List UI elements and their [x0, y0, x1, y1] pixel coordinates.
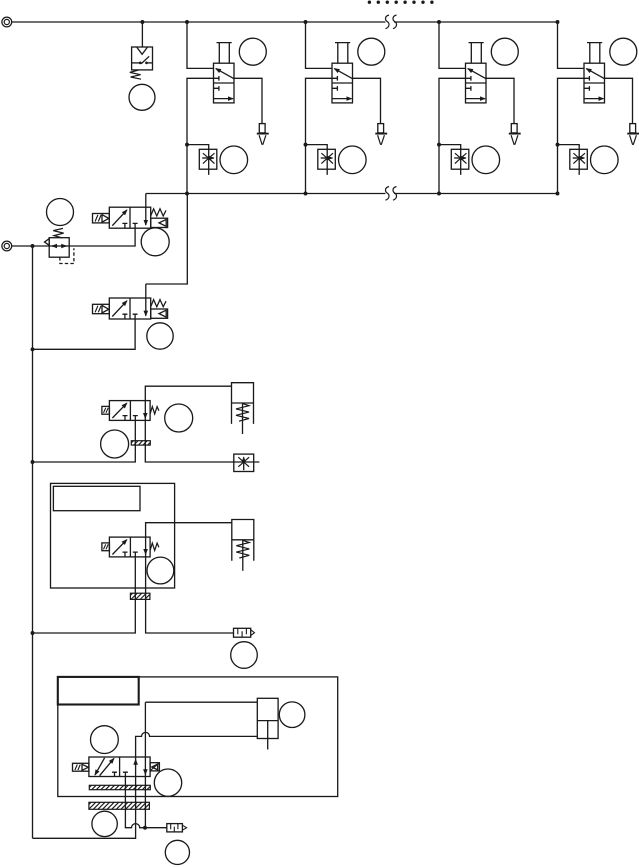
wire: supply drop + feed to valve V14: [558, 22, 585, 68]
wire: branch to flow control FC1: [187, 145, 209, 175]
wire: lower collector bus (right of break): [394, 193, 558, 195]
label circle (below restrictor plates): [92, 811, 117, 836]
label circle (valve V13): [491, 38, 518, 65]
node: bottom bus junction unit 3: [437, 192, 441, 196]
node: top bus junction unit 3: [437, 20, 441, 24]
valve V13 plunger actuator: [469, 43, 484, 64]
wire: valve V12 outlet to nozzle: [353, 78, 381, 123]
wire: supply drop + feed to valve V12: [306, 22, 333, 68]
valve V51 flow path arrow (left cell, down): [95, 758, 105, 775]
node: bottom bus junction unit 2: [304, 192, 308, 196]
air pilot return of V51: [150, 763, 159, 771]
valve V51 flow arrow down (exhaust path): [144, 769, 146, 774]
wire: top supply bus (left of break): [12, 21, 386, 23]
title box (section 5): [58, 677, 139, 705]
valve V31 blocked port T (right cell): [133, 416, 138, 421]
label circle (regulator R1): [47, 199, 74, 226]
valve V14 (3/2 plunger valve) body: [584, 63, 605, 103]
wire: junction to silencer M2: [145, 827, 166, 829]
node: bottom bus junction unit 4: [556, 192, 560, 196]
valve V31 blocked port T (left cell): [123, 416, 128, 421]
pressure switch PS1 inlet notch: [137, 47, 147, 54]
valve V22 blocked port T (right cell): [133, 314, 138, 319]
pressure switch PS1 body: [132, 47, 153, 70]
wire: valve V51 exhaust port to silencer junction: [125, 777, 145, 828]
valve V13 blocked port (top cell): [466, 76, 471, 81]
flow control valve FC3 arrow: [454, 157, 466, 159]
valve V22 blocked port T (left cell): [122, 314, 127, 319]
valve V12 (3/2 plunger valve) body: [332, 63, 353, 103]
nozzle N1 flange: [257, 133, 269, 135]
wire: valve V11 left port to down-bus: [187, 78, 214, 193]
wire: supply line through regulator to valve V21: [12, 228, 135, 246]
valve V41 blocked port T (left cell): [123, 552, 128, 557]
cylinder C31 piston: [232, 402, 254, 404]
enclosure box (section 5): [58, 677, 338, 797]
valve V51 flow path arrow (left cell, up): [100, 758, 114, 775]
valve V51 flow arrow up (supply path): [135, 760, 137, 765]
wire: valve V13 outlet to nozzle: [486, 78, 514, 123]
flow control valve FC4 throttle arcs: [573, 153, 585, 163]
valve V11 bottom cell flow arrow: [214, 98, 234, 100]
wire: valve V13 left port to down-bus: [439, 78, 466, 193]
cylinder C41 body: [232, 520, 254, 561]
valve V51 blocked port T (right cell): [123, 772, 128, 776]
wire: supply from left bus up through valve V51 to cylinder C51 rear port: [33, 732, 258, 838]
wire: drop into valve V22 (flow arrow): [145, 284, 147, 316]
pressure regulator R1 spring: [53, 228, 63, 237]
label circle (flow control FC4): [591, 146, 619, 174]
restrictor plate 2 (hatched) section 5: [89, 802, 149, 809]
valve V41 flow path arrow: [112, 540, 126, 555]
flow control valve FC1 body: [199, 149, 217, 169]
label circle (silencer M2): [165, 840, 189, 864]
label circle (cylinder C51): [279, 702, 305, 728]
nozzle N4 tip: [630, 135, 637, 144]
return spring of V31: [150, 407, 159, 414]
wire: lower collector bus (left of break): [146, 193, 386, 195]
continuation dots (top center): [368, 1, 434, 4]
label circle (valve V14): [610, 38, 637, 65]
cylinder C41 spring: [236, 540, 249, 558]
node: junction V31 outlet / left bus: [31, 460, 35, 464]
restrictor plate (hatched) section 4: [130, 593, 150, 599]
flow control valve FC3 throttle arcs: [455, 153, 467, 163]
valve V13 (3/2 plunger valve) body: [466, 63, 487, 103]
nozzle N3 flange: [509, 133, 521, 135]
label circle (outlet section 3): [101, 430, 129, 458]
air pilot return of V22: [151, 309, 168, 318]
pressure switch PS1 spring: [130, 70, 141, 79]
return spring of V22: [151, 300, 166, 307]
flow control valve FC5 throttle arcs: [238, 457, 249, 467]
flow control valve FC2 arrow: [321, 157, 333, 159]
wire: branch to flow control FC2: [306, 145, 328, 175]
pressure regulator R1 body: [49, 238, 69, 258]
wire: cylinder C51 front port down through valve V51 to exhaust: [144, 702, 146, 828]
wire: supply drop + feed to valve V11: [187, 22, 214, 68]
air pilot return of V21: [151, 218, 168, 227]
label circle (silencer M1): [231, 642, 258, 669]
valve V11 blocked port (bottom cell): [214, 86, 219, 91]
nozzle N3 body: [511, 124, 517, 133]
label circle (valve V51 solenoid side): [91, 726, 119, 754]
valve V21 blocked port T (left cell): [122, 223, 127, 228]
restrictor plate 1 (hatched) section 5: [89, 785, 150, 789]
break mark S3 on lower bus: [386, 187, 390, 201]
valve V12 blocked port (top cell): [332, 76, 337, 81]
cylinder C31 spring: [236, 404, 249, 422]
nozzle N3 tip: [511, 135, 518, 144]
nozzle N4 flange: [627, 133, 639, 135]
nozzle N1 body: [259, 124, 265, 133]
valve V21 blocked port T (right cell): [133, 223, 138, 228]
label circle (valve V51 pilot side): [154, 769, 181, 796]
valve V51 blocked port T (left cell): [112, 772, 117, 776]
flow control valve FC4 arrow: [573, 157, 585, 159]
wire: valve V41 supply from left bus: [33, 557, 136, 633]
nozzle N1 tip: [259, 135, 266, 144]
wire: top supply bus (right of break): [394, 21, 558, 23]
wire: supply drop + feed to valve V13: [439, 22, 466, 68]
label circle (valve V41): [147, 557, 174, 584]
valve V22 flow path arrow: [112, 301, 127, 317]
label circle (valve V12): [358, 38, 385, 65]
valve V41 blocked port T (right cell): [133, 552, 138, 557]
valve V21 flow path arrow: [112, 210, 127, 226]
cylinder C51 carriage: [257, 698, 278, 738]
nozzle N2 tip: [378, 135, 385, 144]
node: junction to flow control unit 1: [185, 143, 189, 147]
node: junction exhaust / silencer line: [143, 826, 147, 830]
flow control valve FC5 body: [234, 454, 254, 471]
flow control valve FC3 body: [451, 149, 469, 169]
break mark S4 on lower bus: [393, 187, 397, 201]
wire: valve V11 outlet to nozzle: [234, 78, 262, 123]
node: top bus junction unit 4: [556, 20, 560, 24]
valve V13 bottom cell flow arrow: [466, 98, 486, 100]
valve V12 blocked port (bottom cell): [332, 86, 337, 91]
wire: connector bus to valve V22: [146, 194, 188, 285]
cylinder C51 piston rod: [267, 721, 269, 750]
label circle (pressure switch): [129, 84, 155, 110]
valve V12 plunger actuator: [335, 43, 350, 64]
valve V11 plunger actuator: [217, 43, 232, 64]
title box (section 4): [53, 486, 140, 510]
valve V11 blocked port (top cell): [214, 76, 219, 81]
solenoid coil of V41: [102, 543, 110, 551]
label circle (valve V21): [141, 228, 169, 256]
label circle (flow control FC1): [220, 146, 248, 174]
nozzle N4 body: [630, 124, 636, 133]
cylinder C41 piston rod: [242, 540, 244, 571]
valve V14 blocked port (bottom cell): [584, 86, 589, 91]
wire: valve V31 to cylinder C31 (through valve, flow arrow): [145, 386, 259, 462]
pressure regulator R1 pilot line (dashed): [60, 248, 74, 263]
node: junction to flow control unit 2: [304, 143, 308, 147]
cylinder C51 body: [145, 701, 257, 703]
flow control valve FC2 throttle arcs: [321, 153, 333, 163]
valve V31 flow path arrow: [112, 403, 126, 418]
cylinder C31 piston rod: [242, 403, 244, 434]
flow control valve FC5 arrow: [243, 457, 245, 470]
label circle (flow control FC3): [472, 146, 500, 174]
valve V13 flow path arrow: [468, 69, 486, 79]
valve V14 plunger actuator: [587, 43, 602, 64]
nozzle N2 body: [378, 124, 384, 133]
silencer M1 body: [234, 628, 255, 637]
valve V13 blocked port (bottom cell): [466, 86, 471, 91]
valve V11 (3/2 plunger valve) body: [214, 63, 235, 103]
valve V31 (3/2 solenoid valve) body: [109, 401, 150, 421]
silencer M2 body: [167, 824, 187, 832]
wire: valve V14 left port to down-bus: [558, 78, 585, 193]
node: bottom bus junction unit 1: [185, 192, 189, 196]
flow control valve FC4 body: [570, 149, 588, 169]
valve V22 (3/2 solenoid valve) body: [109, 298, 150, 319]
wire: valve V22 outlet to left bus: [33, 319, 136, 349]
solenoid coil of V31: [102, 406, 110, 414]
return spring of V21: [151, 209, 166, 216]
node: junction to flow control unit 3: [437, 143, 441, 147]
flow control valve FC2 body: [318, 149, 336, 169]
label circle (valve V22): [147, 323, 173, 349]
enclosure box (section 4): [51, 483, 175, 588]
flow control valve FC1 arrow: [202, 157, 214, 159]
restrictor plate (hatched) section 3: [131, 441, 150, 445]
valve V21 (3/2 solenoid valve) body: [109, 207, 150, 228]
wire: valve V12 left port to down-bus: [306, 78, 333, 193]
cylinder C41 piston: [232, 539, 254, 541]
wire: valve V14 outlet to nozzle: [605, 78, 633, 123]
solenoid coil of V51: [73, 763, 89, 771]
cylinder C31 body: [232, 383, 254, 424]
label circle (valve V31): [165, 404, 193, 432]
wire: valve V31 outlet to left bus: [33, 420, 136, 462]
wire: branch to flow control FC3: [439, 145, 461, 175]
return spring of V41: [150, 543, 159, 550]
port P2 (compressed air supply, middle left): [2, 241, 12, 251]
valve V11 flow path arrow: [216, 69, 234, 79]
pressure regulator R1 flow arrows: [52, 245, 66, 247]
pressure switch PS1 contact: [132, 56, 153, 64]
node: junction valve V22 outlet / left bus: [31, 347, 35, 351]
solenoid coil of V21: [93, 214, 110, 223]
valve V14 bottom cell flow arrow: [584, 98, 604, 100]
wire: left supply bus (vertical): [32, 246, 34, 838]
node: junction V41 supply / left bus: [31, 631, 35, 635]
solenoid coil of V22: [93, 304, 110, 313]
valve V51 (5/2 solenoid valve) body: [89, 757, 150, 777]
label circle (valve V11): [239, 38, 266, 65]
node: junction supply / left bus: [31, 244, 35, 248]
valve V14 blocked port (top cell): [584, 76, 589, 81]
valve V14 flow path arrow: [586, 69, 604, 79]
flow control valve FC1 throttle arcs: [203, 153, 215, 163]
node: junction to flow control unit 4: [556, 143, 560, 147]
valve V41 (3/2 solenoid valve) body: [109, 537, 150, 557]
label circle (flow control FC2): [339, 146, 367, 174]
node: top bus junction unit 1: [185, 20, 189, 24]
valve V12 flow path arrow: [334, 69, 352, 79]
nozzle N2 flange: [375, 133, 387, 135]
node: top bus junction unit 2: [304, 20, 308, 24]
valve V12 bottom cell flow arrow: [332, 98, 352, 100]
break mark S2 on top bus: [393, 15, 397, 29]
port P1 (compressed air supply, top left): [2, 17, 12, 27]
wire: branch to flow control FC4: [558, 145, 580, 175]
wire: collector bus down into valve V21 (flow arrow): [145, 194, 147, 226]
pressure regulator R1 relief triangle: [45, 239, 50, 246]
wire: valve V41 to cylinder C41 + down to silencer (flow arrow): [146, 523, 234, 633]
wire: drop to pressure switch: [141, 22, 143, 47]
break mark S1 on top bus: [386, 15, 390, 29]
node: junction top bus / pressure switch: [140, 20, 144, 24]
